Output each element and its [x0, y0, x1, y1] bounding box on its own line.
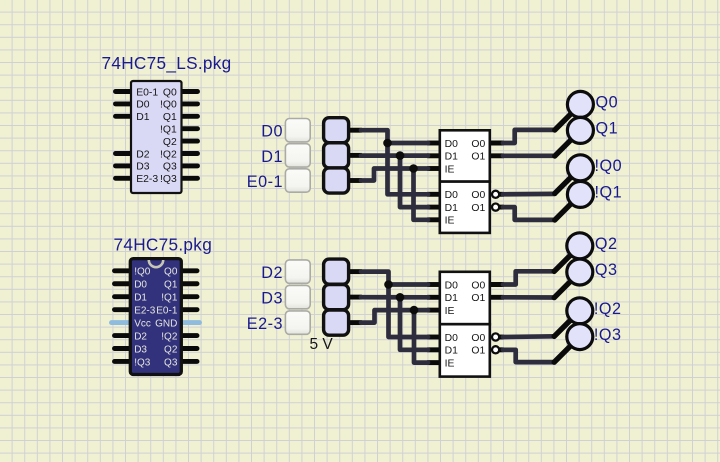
bus splitter cell D3	[324, 285, 349, 310]
output probe !Q2	[554, 298, 593, 337]
bus splitter cell D1	[324, 143, 349, 168]
wire D2 to U3.D0 and U4.D0	[361, 272, 428, 337]
svg-text:D0: D0	[134, 280, 147, 291]
junction D2	[384, 280, 393, 289]
svg-text:O0: O0	[471, 190, 485, 201]
probe label Q2	[595, 235, 618, 253]
node label E2-3	[247, 315, 283, 333]
probe label !Q3	[594, 326, 622, 344]
svg-text:D3: D3	[261, 290, 283, 308]
svg-text:D2: D2	[136, 149, 150, 160]
bus splitter cell E2-3	[324, 310, 349, 335]
wire D1 to U1.D1 and U2.D1	[361, 156, 428, 208]
svg-text:!Q0: !Q0	[160, 100, 177, 111]
wire U1.O1 to Q1 probe	[503, 153, 555, 158]
latch U4 input pins	[427, 337, 442, 363]
IC package 74HC75 Vcc pin	[112, 320, 133, 325]
svg-text:O1: O1	[471, 152, 485, 163]
svg-text:!Q3: !Q3	[160, 174, 177, 185]
svg-text:!Q2: !Q2	[161, 331, 178, 342]
IC package 74HC75 body	[130, 259, 181, 375]
bus splitter cell D2	[324, 259, 349, 284]
probe label Q1	[596, 120, 619, 138]
latch U1 body	[440, 130, 490, 181]
svg-text:O1: O1	[471, 293, 485, 304]
svg-text:O0: O0	[471, 139, 485, 150]
wire D3 to U3.D1 and U4.D1	[361, 297, 428, 350]
wire E2-3 to U3.IE and U4.IE	[361, 310, 428, 363]
junction D0	[383, 139, 392, 148]
IC package 74HC75 left pins	[115, 271, 133, 362]
IC package 74HC75_LS right pins	[180, 92, 198, 179]
svg-text:E2-3: E2-3	[136, 174, 158, 185]
svg-text:!Q1: !Q1	[595, 184, 623, 202]
probe label !Q2	[594, 300, 622, 318]
svg-text:D0: D0	[261, 123, 283, 141]
svg-text:E2-3: E2-3	[134, 305, 156, 316]
input switch D0	[285, 119, 310, 142]
IC package 74HC75_LS left pins	[116, 92, 134, 179]
wire U4.O0 to !Q2 probe	[503, 334, 554, 339]
svg-text:D0: D0	[445, 190, 459, 201]
svg-text:D1: D1	[445, 346, 459, 357]
latch U4 inverted output bubbles	[492, 333, 499, 353]
svg-text:Q3: Q3	[164, 357, 178, 368]
latch U3 body	[440, 272, 490, 324]
svg-text:E0-1: E0-1	[156, 305, 178, 316]
input switch D2	[285, 260, 310, 283]
svg-text:IE: IE	[445, 164, 455, 175]
junction E0-1	[409, 164, 418, 173]
node label D0	[261, 123, 283, 141]
svg-text:O1: O1	[471, 346, 485, 357]
output probe Q3	[554, 259, 593, 298]
label 74HC75.pkg	[114, 234, 213, 254]
svg-text:5 V: 5 V	[310, 336, 334, 353]
wire E0-1 to U1.IE and U2.IE	[361, 169, 428, 220]
latch U2 body	[440, 182, 490, 233]
latch U3 output pins	[488, 285, 504, 298]
svg-text:Vcc: Vcc	[134, 318, 151, 329]
svg-text:D0: D0	[445, 280, 459, 291]
svg-text:Q2: Q2	[163, 137, 177, 148]
output probe Q0	[555, 91, 594, 130]
node label E0-1	[247, 173, 283, 191]
junction D3	[396, 293, 405, 302]
svg-text:IE: IE	[445, 358, 455, 369]
svg-text:!Q0: !Q0	[595, 157, 623, 175]
svg-text:D0: D0	[136, 100, 150, 111]
svg-text:IE: IE	[445, 306, 455, 317]
svg-text:D1: D1	[136, 112, 150, 123]
svg-text:D0: D0	[445, 139, 459, 150]
svg-text:Q2: Q2	[164, 344, 178, 355]
svg-text:E0-1: E0-1	[247, 173, 283, 191]
svg-text:Q0: Q0	[163, 87, 177, 98]
svg-text:74HC75_LS.pkg: 74HC75_LS.pkg	[102, 53, 232, 73]
svg-text:Q1: Q1	[596, 120, 619, 138]
probe label Q3	[595, 261, 618, 279]
svg-text:D1: D1	[445, 203, 459, 214]
svg-text:O1: O1	[471, 203, 485, 214]
probe label !Q1	[595, 184, 623, 202]
wire U2.O0 to !Q0 probe	[503, 192, 555, 197]
svg-text:D3: D3	[134, 344, 147, 355]
output probe !Q1	[555, 181, 594, 220]
svg-text:Q0: Q0	[164, 267, 178, 278]
svg-text:!Q2: !Q2	[160, 149, 177, 160]
IC package 74HC75_LS body	[131, 81, 182, 193]
junction D1	[396, 151, 405, 160]
node label D3	[261, 290, 283, 308]
input switch D3	[285, 285, 310, 308]
bus splitter group 1 pins	[349, 130, 362, 180]
svg-text:IE: IE	[445, 216, 455, 227]
svg-text:Q3: Q3	[595, 261, 618, 279]
svg-text:D1: D1	[445, 293, 459, 304]
svg-text:D0: D0	[445, 333, 459, 344]
wire D0 to U1.D0 and U2.D0	[361, 130, 428, 194]
latch U4 output pins	[499, 337, 504, 350]
input switch E0-1	[285, 169, 310, 192]
wire U4.O1 to !Q3 probe	[503, 350, 554, 362]
latch U3 input pins	[427, 285, 442, 311]
svg-text:74HC75.pkg: 74HC75.pkg	[114, 234, 213, 254]
latch U2 inverted output bubbles	[492, 191, 499, 211]
svg-text:E2-3: E2-3	[247, 315, 283, 333]
node label D2	[261, 264, 283, 282]
svg-text:Q1: Q1	[163, 112, 177, 123]
svg-text:Q2: Q2	[595, 235, 618, 253]
svg-text:Q3: Q3	[163, 162, 177, 173]
IC package 74HC75 right pins	[179, 271, 197, 362]
svg-text:!Q0: !Q0	[134, 267, 151, 278]
svg-text:!Q1: !Q1	[161, 293, 178, 304]
wire U3.O1 to Q3 probe	[503, 295, 554, 300]
input switch E2-3	[285, 311, 310, 334]
output probe !Q3	[554, 324, 593, 363]
svg-text:D2: D2	[134, 331, 147, 342]
svg-text:E0-1: E0-1	[136, 87, 158, 98]
wire U3.O0 to Q2 probe	[503, 271, 554, 284]
bus splitter group 2 pins	[349, 272, 362, 323]
svg-text:O0: O0	[471, 280, 485, 291]
wire U1.O0 to Q0 probe	[503, 130, 555, 143]
junction E2-3	[410, 306, 419, 315]
svg-text:D2: D2	[261, 264, 283, 282]
svg-text:D3: D3	[136, 162, 150, 173]
bus splitter cell D0	[324, 118, 349, 143]
input switch D1	[285, 144, 310, 167]
svg-text:!Q3: !Q3	[594, 326, 622, 344]
latch U2 output pins	[499, 194, 504, 207]
value label 5 V	[310, 336, 334, 353]
svg-text:Q0: Q0	[596, 94, 619, 112]
svg-text:Q1: Q1	[164, 280, 178, 291]
output probe Q1	[555, 117, 594, 156]
svg-text:D1: D1	[134, 293, 147, 304]
svg-text:D1: D1	[261, 148, 283, 166]
svg-text:GND: GND	[155, 318, 177, 329]
bus splitter cell E0-1	[324, 168, 349, 193]
IC package 74HC75 GND pin	[179, 320, 199, 325]
label 74HC75_LS.pkg	[102, 53, 232, 73]
output probe !Q0	[555, 155, 594, 194]
svg-text:O0: O0	[471, 333, 485, 344]
output probe Q2	[554, 233, 593, 272]
svg-text:!Q3: !Q3	[134, 357, 151, 368]
svg-text:D1: D1	[445, 152, 459, 163]
wire U2.O1 to !Q1 probe	[503, 207, 555, 220]
latch U1 output pins	[488, 143, 504, 156]
latch U4 body	[440, 324, 490, 376]
node label D1	[261, 148, 283, 166]
probe label Q0	[596, 94, 619, 112]
probe label !Q0	[595, 157, 623, 175]
latch U2 input pins	[427, 194, 442, 220]
latch U1 input pins	[427, 143, 442, 169]
svg-text:!Q1: !Q1	[160, 125, 177, 136]
svg-text:!Q2: !Q2	[594, 300, 622, 318]
